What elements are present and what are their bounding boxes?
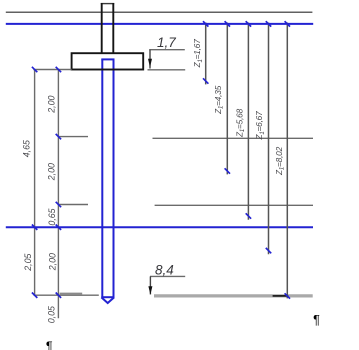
sounding line Z1=5,68	[247, 23, 249, 220]
dimension 1,7 arrow	[148, 59, 152, 68]
svg-text:0,65: 0,65	[47, 208, 57, 225]
tick end Z1=1,67	[203, 78, 208, 83]
tick tip level A	[32, 293, 37, 298]
svg-text:Z1=8,02: Z1=8,02	[274, 146, 286, 176]
tick blue line x227.3	[225, 21, 230, 26]
pile cap rectangle	[72, 53, 144, 69]
tick end Z1=5,68	[246, 213, 251, 218]
pile right edge	[113, 59, 115, 297]
tick level -2.00	[56, 134, 61, 139]
column left side	[101, 3, 103, 54]
level tick line -4.00 left	[58, 204, 88, 206]
pile top edge (blue)	[101, 58, 114, 60]
soil layer boundary 2	[155, 204, 313, 206]
pile tip level line	[34, 294, 99, 296]
svg-text:¶: ¶	[313, 313, 320, 327]
dimension 8,4 leader	[149, 276, 151, 294]
svg-text:2,05: 2,05	[23, 254, 33, 272]
pile tip level thick segment	[60, 293, 83, 295]
bottom boundary dark segment	[273, 295, 289, 297]
svg-text:8,4: 8,4	[155, 263, 174, 278]
sounding line Z1=1,67	[205, 23, 207, 85]
dimension 1,7 leader	[149, 50, 151, 69]
tick blue line x205.7	[203, 21, 208, 26]
dimension 8,4 arrow	[148, 286, 152, 295]
extension line at cap bottom	[33, 69, 71, 71]
pile tip point	[101, 297, 114, 303]
sounding line Z1=8,02	[286, 23, 288, 299]
svg-text:Z1=4,35: Z1=4,35	[213, 85, 225, 115]
svg-text:Z1=1,67: Z1=1,67	[192, 39, 204, 69]
svg-text:Z1=6,67: Z1=6,67	[254, 111, 266, 141]
tick group (blue 45 deg marks)	[32, 21, 290, 299]
column top edge	[101, 3, 114, 5]
pile tip base line	[101, 296, 114, 298]
bottom soil boundary (thick gray)	[154, 294, 313, 297]
tick blue line x248.4	[246, 21, 251, 26]
sounding line Z1=6,67	[268, 23, 270, 255]
svg-text:Z1=5,68: Z1=5,68	[234, 108, 246, 138]
tick blue line x268.5	[266, 21, 271, 26]
upper water level line (blue)	[6, 23, 313, 25]
svg-text:4,65: 4,65	[22, 140, 32, 157]
dimension 8,4 top line	[150, 275, 185, 277]
dimension line B	[57, 70, 59, 319]
svg-text:0,05: 0,05	[47, 306, 57, 323]
tick end Z1=4,35	[225, 168, 230, 173]
tick end Z1=6,67	[266, 248, 271, 253]
dimension 1,7 top line	[149, 49, 185, 51]
ground surface line	[6, 11, 313, 13]
pile left edge	[101, 59, 103, 297]
tick blue line x287.3	[285, 21, 290, 26]
tick cap bottom A	[32, 67, 37, 72]
svg-text:¶: ¶	[46, 340, 53, 350]
level tick line -2.00 left	[58, 136, 88, 138]
soil layer boundary 1	[153, 137, 314, 139]
column right side	[112, 3, 114, 54]
tick cap bottom B	[56, 67, 61, 72]
tick level -4.00	[56, 202, 61, 207]
tick tip level B	[56, 293, 61, 298]
sounding line Z1=4,35	[226, 23, 228, 175]
svg-text:2,00: 2,00	[47, 96, 57, 114]
svg-text:2,00: 2,00	[47, 163, 57, 181]
lower ground water line (blue)	[6, 226, 313, 228]
dimension 1,7 extension line	[148, 69, 186, 71]
svg-text:2,00: 2,00	[48, 253, 58, 271]
tick water A	[32, 225, 37, 230]
tick end Z1=8,02	[285, 293, 290, 298]
dimension line A	[34, 70, 36, 296]
tick water B	[56, 225, 61, 230]
svg-text:1,7: 1,7	[157, 35, 176, 50]
